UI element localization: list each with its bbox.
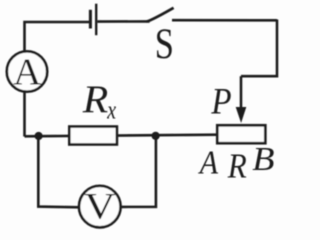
svg-text:P: P — [210, 81, 231, 122]
svg-text:B: B — [252, 140, 274, 178]
svg-text:R: R — [227, 148, 247, 186]
svg-text:A: A — [13, 52, 41, 93]
svg-text:A: A — [198, 143, 219, 181]
svg-text:x: x — [106, 96, 116, 125]
svg-text:S: S — [155, 20, 174, 67]
svg-text:V: V — [84, 186, 115, 227]
svg-text:R: R — [82, 77, 109, 120]
